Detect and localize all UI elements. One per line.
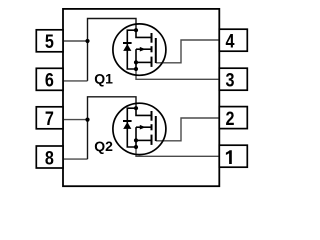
svg-text:Q1: Q1 [94,71,113,87]
svg-text:5: 5 [45,32,54,53]
svg-text:7: 7 [45,109,54,130]
svg-text:2: 2 [226,109,235,130]
svg-text:Q2: Q2 [94,138,113,154]
svg-text:3: 3 [226,71,235,92]
svg-text:4: 4 [226,32,235,53]
svg-text:8: 8 [45,148,54,169]
svg-text:6: 6 [45,71,54,92]
